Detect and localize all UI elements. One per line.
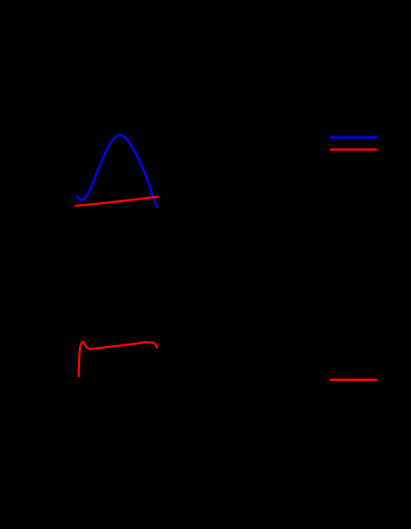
legend blue line (top-right) bbox=[330, 136, 377, 138]
red curve (bottom panel) bbox=[79, 342, 157, 376]
legend red line (bottom-right) bbox=[330, 379, 377, 381]
blue curve (top panel) bbox=[77, 135, 158, 207]
red line (top panel) bbox=[76, 197, 158, 206]
legend red line (top-right) bbox=[330, 148, 377, 150]
